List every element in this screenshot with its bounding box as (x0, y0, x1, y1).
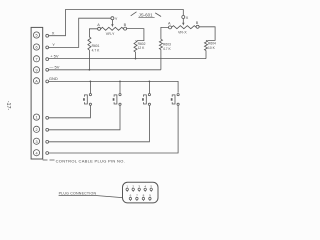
terminal +5V (46, 58, 49, 61)
svg-text:A: A (35, 79, 38, 83)
switch SW3 (148, 94, 150, 96)
pin 2 (33, 126, 39, 132)
svg-text:— 5V: — 5V (49, 64, 59, 69)
svg-text:1: 1 (35, 116, 37, 120)
svg-text:6: 6 (130, 194, 132, 198)
wire SW2 to pin2 (49, 105, 120, 129)
svg-text:X: X (52, 30, 55, 35)
svg-text:PLUG CONNECTION: PLUG CONNECTION (59, 192, 97, 196)
svg-text:12 K: 12 K (138, 46, 146, 50)
svg-text:4.7 K: 4.7 K (163, 47, 171, 51)
svg-text:B: B (124, 23, 127, 27)
terminal 3 (46, 140, 49, 143)
svg-text:9: 9 (149, 194, 151, 198)
wire R603 to -5V (160, 50, 162, 70)
svg-text:R601: R601 (92, 44, 100, 48)
svg-text:5: 5 (35, 34, 37, 38)
svg-text:6: 6 (35, 46, 37, 50)
wire VR-X B to R604 (199, 27, 215, 41)
wire SW4 to pin4 (49, 105, 179, 153)
pin 6 (33, 44, 39, 50)
pin 7 (33, 56, 39, 62)
svg-text:1: 1 (126, 184, 128, 188)
svg-text:X: X (186, 15, 189, 20)
svg-text:CONTROL CABLE PLUG PIN NO.: CONTROL CABLE PLUG PIN NO. (56, 158, 125, 163)
wire GND to SW2 (119, 81, 121, 93)
pin 4 (33, 150, 39, 156)
svg-text:3: 3 (35, 140, 37, 144)
terminal 2 (46, 128, 49, 131)
svg-text:Y: Y (115, 16, 118, 21)
wire VR-X A to R603 (161, 27, 169, 39)
svg-text:5: 5 (150, 184, 152, 188)
switch SW2 (119, 94, 121, 96)
wire SW1 to pin1 (49, 105, 91, 117)
resistor R602 (134, 41, 137, 52)
svg-text:4: 4 (144, 184, 146, 188)
svg-text:-17-: -17- (5, 101, 11, 111)
svg-text:GND: GND (49, 76, 58, 81)
switch SW4 (177, 94, 179, 96)
wire +5V bus (49, 58, 206, 60)
svg-text:VR-X: VR-X (178, 30, 187, 34)
svg-text:4: 4 (35, 151, 37, 155)
svg-text:VR-Y: VR-Y (106, 32, 115, 36)
potentiometer VR-Y (101, 27, 124, 30)
potentiometer VR-X (172, 26, 196, 29)
wire GND to SW3 (148, 81, 150, 93)
wire R602 to +5V (135, 52, 137, 59)
svg-text:3: 3 (138, 184, 140, 188)
wiper arrow VR-Y (111, 20, 113, 25)
wire GND bus (49, 81, 179, 92)
pin 9 (33, 67, 39, 73)
wire net X (49, 10, 184, 36)
junction GND-SW1 (90, 81, 92, 83)
svg-text:JS-601: JS-601 (139, 13, 153, 18)
wire R601 to -5V (88, 50, 90, 70)
wire GND to SW1 (89, 81, 91, 93)
plug pins row 2 (129, 194, 131, 201)
svg-text:+ 5V: + 5V (50, 53, 59, 58)
svg-text:8: 8 (143, 194, 145, 198)
node X output (182, 16, 185, 19)
svg-text:4.7 K: 4.7 K (92, 48, 100, 52)
wire SW3 to pin3 (49, 105, 150, 141)
terminal Y (46, 46, 49, 49)
pin 3 (33, 138, 39, 144)
svg-text:B: B (196, 21, 199, 25)
svg-text:10 K: 10 K (208, 46, 216, 50)
svg-text:7: 7 (136, 194, 138, 198)
terminal 4 (46, 152, 49, 155)
svg-text:9: 9 (35, 68, 37, 72)
resistor R603 (159, 39, 162, 49)
switch SW1 (89, 94, 91, 96)
wiper arrow VR-X (182, 19, 184, 24)
svg-text:A: A (168, 22, 171, 26)
control cable callout (43, 159, 55, 161)
terminal 1 (46, 116, 49, 119)
plug D-sub outline (123, 182, 159, 203)
resistor R604 (204, 40, 207, 50)
wire R604 to +5V (205, 51, 207, 59)
junction GND-SW2 (119, 81, 121, 83)
plug pins row 1 (126, 184, 152, 201)
svg-text:2: 2 (35, 128, 37, 132)
resistor R601 (88, 37, 91, 50)
svg-text:A: A (97, 23, 100, 27)
terminal GND (46, 80, 49, 83)
pin 5 (33, 32, 39, 38)
svg-text:Y: Y (52, 42, 55, 47)
svg-text:2: 2 (132, 184, 134, 188)
svg-text:7: 7 (35, 57, 37, 61)
svg-text:R603: R603 (163, 42, 171, 46)
node Y output (111, 17, 114, 20)
pin 1 (33, 114, 39, 120)
wire VR-Y A to R601 (89, 29, 97, 37)
connector J1 box (31, 27, 43, 159)
terminal -5V (46, 68, 49, 71)
junction GND-SW3 (149, 81, 151, 83)
wire -5V bus (49, 69, 161, 71)
pin A (33, 78, 39, 84)
wire net Y (49, 18, 111, 47)
terminal X (46, 34, 49, 37)
wire VR-Y B to R602 (127, 29, 144, 41)
